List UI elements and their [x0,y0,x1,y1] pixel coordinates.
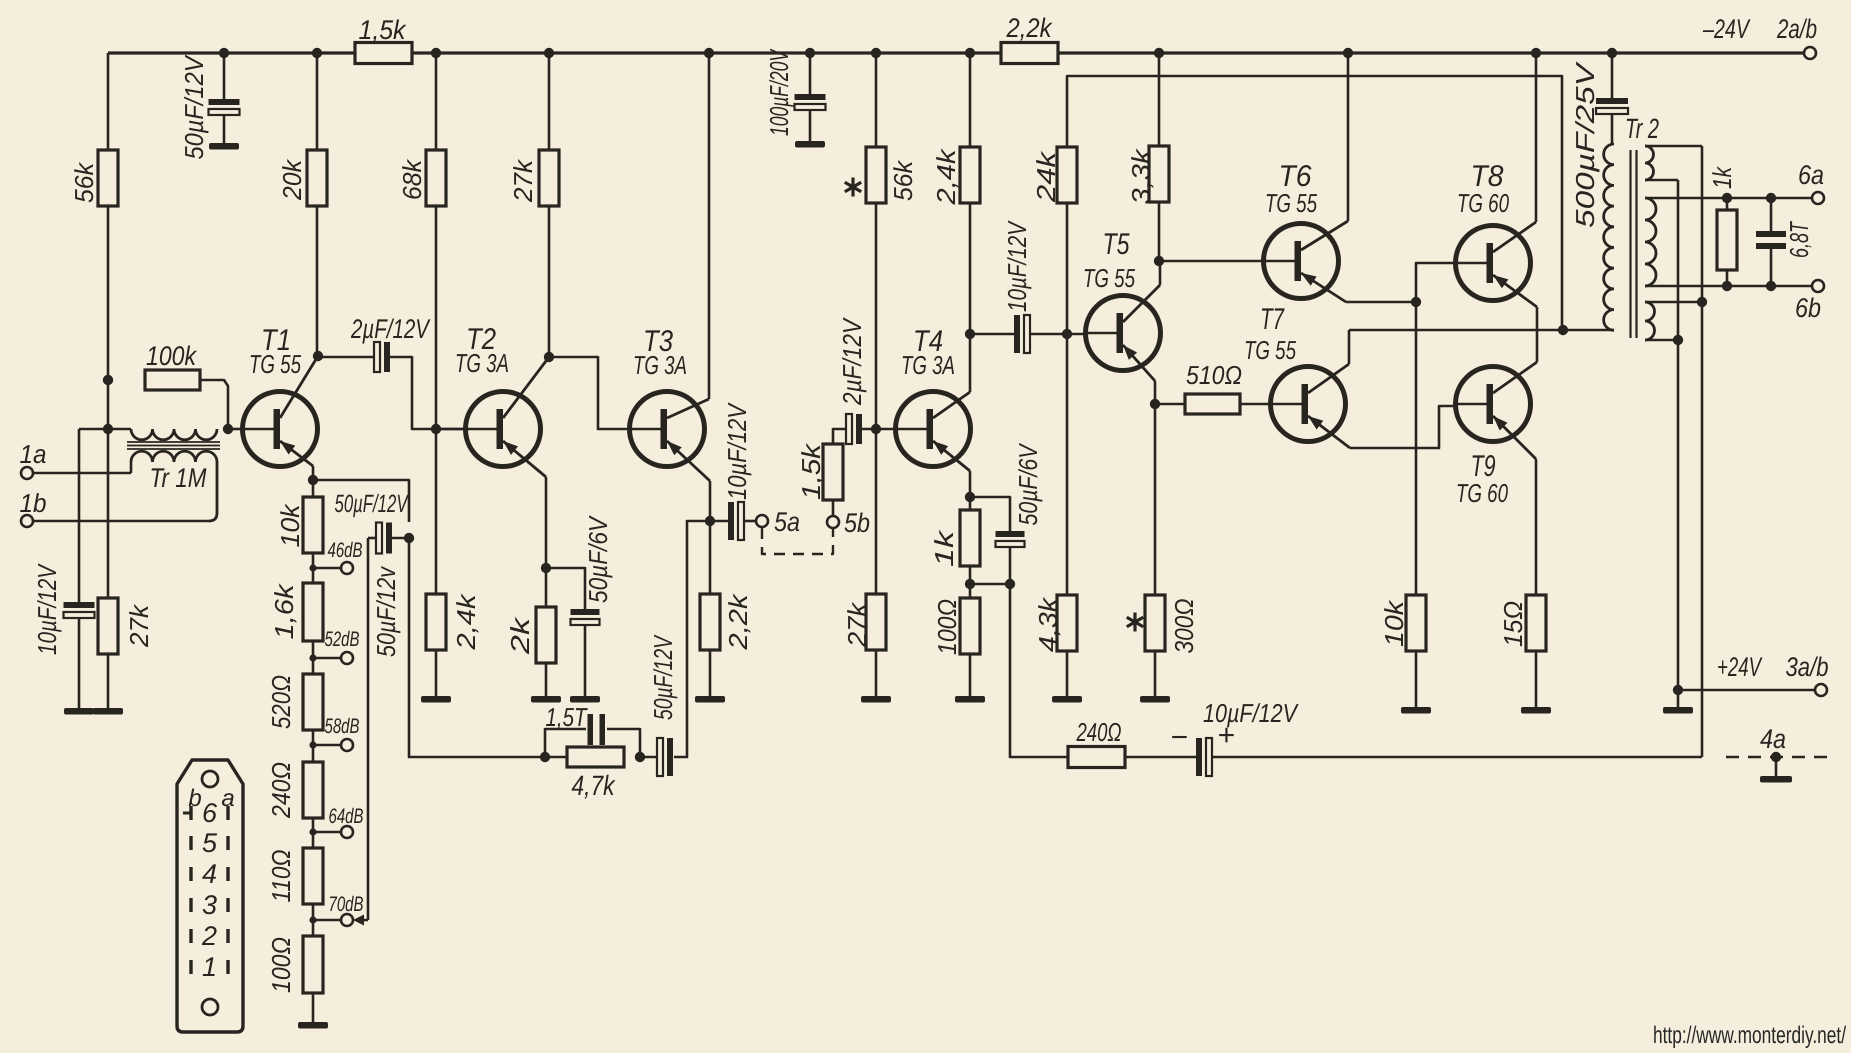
capacitor 50µF/6V (T2 emitter) [571,515,614,696]
svg-text:1,5k: 1,5k [359,15,407,45]
svg-text:2µF/12V: 2µF/12V [837,317,867,406]
terminal 5a [756,507,800,537]
ground (+24V) [1663,707,1693,714]
svg-text:50µF/12V: 50µF/12V [335,490,410,518]
wire 300Ω ground [1154,651,1157,696]
ground (10µF/12V input) [64,708,94,715]
node T4 base junction [871,424,881,434]
wire T1 emitter [280,441,313,480]
svg-text:TG 55: TG 55 [1244,335,1296,365]
transformer Tr1M secondary winding [131,451,217,521]
wire T6 collector [1301,53,1348,250]
svg-text:–24V: –24V [1702,14,1751,44]
svg-text:64dB: 64dB [329,805,364,828]
wire 27k branch T2 [548,53,551,357]
terminal 6b [1795,280,1824,323]
transformer Tr2 secondary upper [1645,146,1702,180]
svg-text:3a/b: 3a/b [1786,652,1829,682]
svg-text:10µF/12V: 10µF/12V [32,563,62,655]
svg-text:5a: 5a [774,507,800,537]
node T1 emitter junction [308,475,318,485]
svg-text:−: − [1170,721,1188,754]
wire T1 collector [280,356,318,418]
svg-text:5: 5 [202,828,218,858]
resistor 1k (output) [1707,165,1737,270]
svg-text:6b: 6b [1795,293,1821,323]
capacitor 6,8T [1756,198,1814,286]
capacitor 10µF/12V (5a coupling) [710,402,756,540]
ground (27k T4) [861,696,891,703]
resistor 100Ω (T4) [932,598,980,655]
svg-text:TG 3A: TG 3A [455,348,509,378]
wire 10k-1,6k [312,553,315,583]
wire 4,3k branch [1066,334,1069,595]
node T4 emitter junction [965,492,975,502]
svg-text:T7: T7 [1260,303,1285,336]
node T2 collector junction [544,352,554,362]
transistor T1 [243,324,318,467]
wire to 240Ω [1010,584,1068,757]
node 6,8T top junction [1766,193,1776,203]
node output/bootstrap junction [1558,325,1568,335]
capacitor 1,5T (bypass) [545,702,640,757]
svg-text:4a: 4a [1760,724,1786,754]
node rail/2,4k junction [965,48,975,58]
resistor 110Ω (attenuator) [266,848,323,904]
svg-text:2,4k: 2,4k [451,592,481,650]
node rail/68k junction [431,48,441,58]
transistor T6 [1264,160,1339,299]
wire T9 collector [1493,362,1537,393]
resistor 15Ω (T9 emitter) [1498,595,1546,651]
wire T6 base [1159,260,1265,263]
svg-text:27k: 27k [842,601,872,648]
wire T1 collector to coupling cap [318,356,374,359]
svg-text:10µF/12V: 10µF/12V [722,402,752,500]
node secondary lower junction [1673,335,1683,345]
wire output line [1349,329,1614,332]
wire feedback to cap [674,521,710,757]
node 56k/27k junction [103,424,113,434]
wire cap to 4,7k [640,756,657,759]
wire 100Ω ground [969,654,972,696]
wire 50µF/6V T4 branch [970,497,1010,531]
transistor T4 [896,325,971,467]
svg-text:50µF/6V: 50µF/6V [583,515,613,603]
capacitor 10µF/12V (input) [32,563,95,708]
svg-text:110Ω: 110Ω [266,850,296,903]
wire 56k* branch [875,53,878,429]
transformer Tr1M core [127,442,220,449]
wire cap to T4 base [862,428,897,431]
svg-text:10k: 10k [1379,599,1409,647]
resistor 510Ω [1155,360,1272,414]
node 56k/100k junction [103,375,113,385]
wire T8 emitter [1493,275,1537,362]
capacitor 50µF/12V (rail decoupling) [179,53,240,160]
ground (2,2k) [695,696,725,703]
svg-text:Tr 2: Tr 2 [1625,113,1659,144]
svg-text:46dB: 46dB [328,539,363,562]
node T1 collector junction [313,351,323,361]
svg-text:2k: 2k [505,615,535,655]
wire selector arrow [353,915,368,926]
wire T1 emitter to cap [313,480,409,522]
resistor 20k [277,150,327,206]
node rail/T3 junction [704,48,714,58]
wire 4,7k left lead [545,756,567,759]
transformer Tr2 core [1631,150,1637,338]
resistor 10k (attenuator) [275,497,323,553]
wire emitter to 10k [312,480,315,497]
svg-text:3,3k: 3,3k [1126,147,1156,204]
wire selector line [368,538,401,920]
svg-text:1,5T: 1,5T [546,702,589,732]
wire 10k output branch [1415,302,1418,595]
svg-text:6: 6 [202,798,218,828]
svg-text:TG 55: TG 55 [1265,188,1317,218]
node +24V junction [1673,685,1683,695]
node T4 collector junction [965,329,975,339]
resistor 27k (T4 base) [842,594,886,650]
wire T2 collector to T3 base [549,357,631,429]
node rail/T6 junction [1343,48,1353,58]
capacitor 10µF/12V (bias feed) [1170,698,1299,776]
wire 110-100 [312,904,315,936]
node T5 emitter junction [1150,399,1160,409]
resistor 2k [505,607,556,663]
wire 70dB tap [313,919,341,922]
resistor 3,3k [1126,146,1169,205]
svg-text:58dB: 58dB [325,715,360,738]
wire T6 emitter [1301,273,1416,302]
ground (15Ω) [1521,707,1551,714]
terminal 52dB [325,628,360,664]
node T5 collector junction [1154,256,1164,266]
wire T5 collector [1123,261,1160,322]
wire 6b line [1645,285,1812,288]
svg-text:3: 3 [202,890,217,920]
node rail/3,3k junction [1154,48,1164,58]
ground (2k) [531,696,561,703]
svg-text:15Ω: 15Ω [1498,601,1528,647]
asterisk (300Ω) [1127,613,1143,632]
node T1 base junction [223,424,233,434]
svg-text:6,8T: 6,8T [1784,221,1814,258]
svg-text:20k: 20k [277,158,307,201]
capacitor 50µF/6V (T4 emitter) [996,442,1044,584]
capacitor 2µF/12V (T1-T2) [350,314,431,372]
svg-text:2a/b: 2a/b [1776,14,1817,44]
wire 5a-5b link (dashed) [762,528,833,554]
wire 64dB tap [313,831,341,834]
ground (4,3k) [1052,696,1082,703]
wire T7 collector [1308,330,1349,393]
resistor 2,2k (rail series) [1001,13,1058,64]
svg-text:70dB: 70dB [329,893,364,916]
svg-text:TG 3A: TG 3A [633,350,687,380]
node 6,8T bottom junction [1766,281,1776,291]
svg-text:TG 60: TG 60 [1456,478,1508,508]
wire 10k ground [1415,651,1418,707]
node 50µF junction [404,533,414,543]
wire T3 collector [667,53,709,418]
node 52dB tap [309,654,316,661]
node rail/20k junction [312,48,322,58]
wire T7 emitter [1308,406,1457,448]
svg-text:68k: 68k [397,158,427,200]
terminal 2a/b [1702,14,1817,59]
svg-text:10k: 10k [275,502,305,547]
wire cap right lead [392,537,409,540]
resistor 240Ω (bias feed) [1068,717,1125,768]
wire to 2k [545,568,548,607]
node rail/56k* junction [871,48,881,58]
capacitor 100µF/20V (rail decoupling) [764,48,826,141]
wire 2,2k ground [709,650,712,696]
wire -24V supply rail [108,51,1804,54]
transistor T2 [455,323,541,467]
svg-text:1k: 1k [929,528,959,567]
wire 15Ω ground [1535,651,1538,707]
svg-text:50µF/6V: 50µF/6V [1013,442,1043,525]
transistor T3 [630,325,705,467]
ground (2,4k) [421,696,451,703]
wire T2 emitter [503,441,546,568]
wire 300Ω branch [1154,404,1157,595]
terminal 46dB [328,539,363,574]
svg-text:56k: 56k [888,159,918,201]
resistor 1,5k (5b) [796,442,843,500]
wire 27k T4 branch [875,429,878,594]
resistor 1k (T4 emitter) [929,497,980,567]
resistor 68k [397,150,446,206]
transistor T8 [1456,160,1531,301]
node T2 emitter junction [541,563,551,573]
terminal 64dB [329,805,364,838]
wire T2 base [436,428,467,431]
resistor 1,5k (rail series) [355,15,412,64]
svg-text:T5: T5 [1103,228,1130,261]
wire 240Ω to cap [1125,756,1196,759]
node riser junction [1697,297,1707,307]
svg-text:27k: 27k [124,603,154,648]
node rail/T8 junction [1531,48,1541,58]
svg-text:520Ω: 520Ω [266,675,296,729]
terminal 6a [1798,160,1824,204]
ground (attenuator) [298,1022,328,1029]
wire cap to output riser [1212,756,1702,759]
terminal 5b [827,508,870,538]
wire T3 emitter [667,441,710,521]
svg-text:TG 55: TG 55 [1083,263,1135,293]
svg-text:5b: 5b [844,508,870,538]
wire 1k to 100Ω [969,566,972,598]
svg-text:10µF/12V: 10µF/12V [1203,698,1299,728]
wire 46dB tap [313,567,341,570]
wire 2,4k/bootstrap branch [1066,204,1069,334]
svg-text:50µF/12v: 50µF/12v [371,565,401,657]
terminal 58dB [325,715,360,751]
resistor 520Ω (attenuator) [266,674,323,730]
svg-text:240Ω: 240Ω [1076,717,1122,747]
resistor 10k (T8 base) [1379,595,1426,651]
resistor 56k [69,150,118,206]
terminal 1b [20,488,47,527]
svg-text:100k: 100k [146,341,197,371]
wire 240-110 [312,818,315,848]
resistor 1,6k (attenuator) [269,582,323,641]
wire T8 collector [1493,53,1536,252]
node rail/100µF junction [805,48,815,58]
wire to T8 base [1416,263,1457,302]
svg-text:2,2k: 2,2k [1006,13,1053,43]
wire feedback riser [409,538,545,757]
wire 4,3k ground [1066,651,1069,696]
svg-text:TG 55: TG 55 [249,349,301,379]
wire coupling to T2 base [390,357,467,429]
svg-text:TG 60: TG 60 [1457,188,1509,218]
wire output riser [1701,146,1704,757]
capacitor 500µF/25V [1570,53,1628,228]
svg-text:100µF/20V: 100µF/20V [764,48,794,136]
svg-text:http://www.monterdiy.net/: http://www.monterdiy.net/ [1653,1022,1846,1048]
svg-text:500µF/25V: 500µF/25V [1570,61,1600,228]
wire cap bottom link [970,583,1010,586]
node T2 base junction [431,424,441,434]
terminal 70dB [329,893,364,926]
resistor 27k (T2 collector) [508,150,559,206]
svg-text:2,4k: 2,4k [931,147,961,205]
svg-text:50µF/12V: 50µF/12V [648,634,678,720]
svg-text:27k: 27k [508,158,538,203]
ground (50µF/6V) [570,696,600,703]
svg-text:100Ω: 100Ω [932,599,962,655]
svg-text:4: 4 [202,859,217,889]
svg-text:52dB: 52dB [325,628,360,651]
transistor T7 [1244,303,1346,442]
wire 6a line [1645,197,1812,200]
node 58dB tap [309,741,316,748]
node T8 base junction [1411,297,1421,307]
svg-text:Tr 1M: Tr 1M [150,463,207,493]
wire 56k branch [107,53,110,429]
node 1k bottom junction2 [1722,281,1732,291]
wire T2 collector [503,357,549,418]
wire 1b to transformer [33,520,210,523]
wire secondary series link [1677,180,1680,340]
wire 2k ground [545,663,548,696]
wire 27k input branch [107,429,110,708]
svg-text:56k: 56k [69,161,99,203]
wire T9 emitter [1493,416,1536,595]
wire 520-240 [312,730,315,762]
connector block [177,760,243,1032]
wire 2,4k to ground [435,650,438,696]
node rail/500µF junction [1607,48,1617,58]
wire +24V feed [1678,689,1815,692]
resistor 56k (T4 base) [866,147,918,203]
svg-text:2µF/12V: 2µF/12V [350,314,431,344]
wire 50µF/6V branch [546,568,585,609]
wire 3,3k branch [1158,53,1161,261]
wire 58dB tap [313,744,341,747]
wire T1 base [228,428,244,431]
transformer Tr2 secondary lower [1645,302,1702,340]
node 4,7k right junction [635,752,645,762]
wire cap left lead [368,537,376,540]
watermark [1653,1022,1846,1049]
wire 68k to 2,4k [435,429,438,594]
terminal 3a/b [1717,652,1829,696]
wire 1k bottom [1726,270,1729,286]
svg-text:100Ω: 100Ω [266,937,296,993]
transformer Tr2 secondary middle [1645,198,1656,286]
resistor 100k [145,341,200,390]
resistor 4,7k (feedback) [567,747,624,801]
svg-text:10µF/12V: 10µF/12V [1002,220,1032,312]
node 1k bottom junction [965,579,975,589]
svg-text:2,2k: 2,2k [723,592,753,650]
terminal 1a [20,439,47,479]
node rail/27k junction [544,48,554,58]
wire 1,5k branch 5b [833,429,846,516]
node 64dB tap [309,828,316,835]
wire input node [79,429,131,602]
resistor 100Ω (attenuator) [266,936,323,993]
wire T4 collector [933,335,970,418]
svg-text:6a: 6a [1798,160,1824,190]
ground (10k) [1401,707,1431,714]
wire 20k branch [316,53,319,356]
svg-text:1a: 1a [20,439,47,469]
ground (50µF/12V) [209,143,239,150]
resistor 24k (T5 base) [1031,147,1077,203]
ground (100Ω T4) [955,696,985,703]
wire T4 emitter [933,441,970,497]
wire 52dB tap [313,657,341,660]
resistor 240Ω (attenuator) [266,762,323,819]
wire T5 base [1067,333,1087,336]
wire 27k T4 ground [875,650,878,696]
ground (300Ω) [1140,696,1170,703]
resistor 4,3k [1033,595,1077,652]
wire 100Ω to ground [312,993,315,1022]
ground (4a) [1760,776,1792,783]
resistor 27k (input) [98,598,154,654]
svg-text:4,3k: 4,3k [1033,596,1063,652]
asterisk (56k) [845,178,861,197]
svg-text:1,6k: 1,6k [269,582,299,639]
capacitor 2µF/12V (T4 coupling) [837,317,867,444]
resistor 2,4k (T2 base) [426,592,481,650]
ground (100µF/20V) [795,141,825,148]
wire 1a to transformer [33,472,131,475]
wire 2,4k T4 branch [969,53,972,335]
svg-text:510Ω: 510Ω [1186,360,1242,390]
capacitor 50µF/12V (feedback) [648,634,678,776]
wire T5 emitter [1123,345,1155,404]
node 1k top junction [1722,193,1732,203]
wire 1,6k-520 [312,641,315,674]
node rail/50µF junction [219,48,229,58]
svg-text:+24V: +24V [1717,652,1763,682]
svg-text:1: 1 [202,952,217,982]
node 46dB tap [309,564,316,571]
resistor 2,2k (T3 emitter) [700,592,753,650]
svg-text:1k: 1k [1707,165,1737,189]
capacitor 50µF/12V (emitter) [335,490,410,554]
